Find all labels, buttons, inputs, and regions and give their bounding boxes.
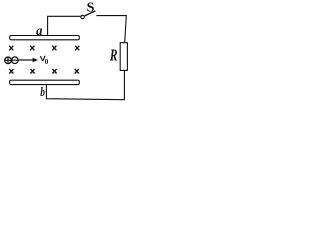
svg-text:b: b (40, 86, 45, 99)
svg-text:R: R (109, 47, 118, 66)
svg-text:S: S (87, 0, 95, 15)
svg-text:0: 0 (45, 58, 49, 66)
svg-text:a: a (36, 22, 43, 38)
